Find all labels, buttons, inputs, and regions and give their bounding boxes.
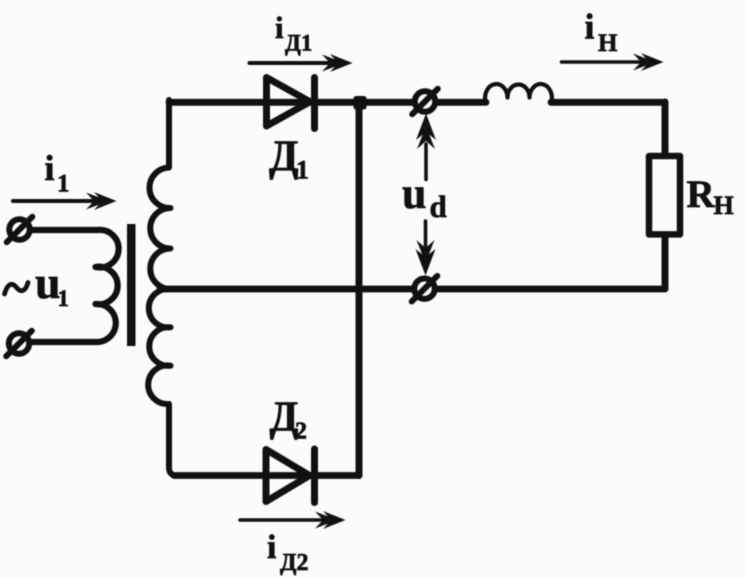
svg-text:u: u [402, 169, 426, 218]
svg-text:Д: Д [269, 133, 299, 180]
svg-text:Н: Н [714, 191, 734, 220]
svg-text:i: i [585, 7, 595, 47]
svg-text:Д2: Д2 [280, 550, 309, 576]
svg-text:i: i [275, 10, 284, 45]
svg-text:Н: Н [598, 30, 618, 57]
svg-text:Д1: Д1 [285, 31, 312, 56]
svg-text:1: 1 [58, 286, 70, 311]
svg-text:i: i [45, 148, 55, 188]
svg-text:d: d [430, 189, 447, 224]
svg-text:1: 1 [296, 156, 309, 185]
svg-text:1: 1 [57, 171, 70, 198]
svg-text:i: i [267, 529, 276, 566]
svg-text:R: R [687, 173, 716, 216]
svg-text:2: 2 [295, 419, 307, 445]
